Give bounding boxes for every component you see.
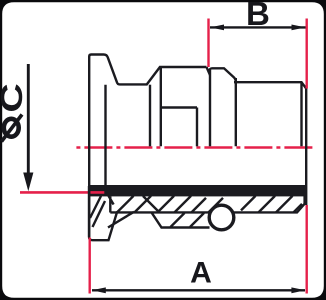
dim B right arrow [292,25,306,31]
flange lower block outline [89,186,117,240]
dim A right extension (red) [306,205,308,294]
label O of diameter symbol [4,119,19,137]
svg-text:B: B [246,0,270,32]
svg-text:C: C [0,83,29,112]
deep zone hatch [171,213,185,227]
tube end chamfer line [143,196,159,212]
step chamfer backslash [108,196,113,205]
bore shoulder horizontal [161,106,197,108]
flange right face vertical [104,85,106,196]
dim A left extension (red) [88,238,90,294]
groove right wall vertical [149,85,151,147]
collar right edge vertical [235,78,237,146]
dim B left arrow [210,25,224,31]
dim C down arrow [23,173,33,192]
hatch strip bottom edge with right end chamfer [110,186,304,212]
dim B right extension (red) [306,19,308,89]
flange block hatch [90,196,101,218]
dim A left arrow [92,287,106,293]
thread top edge and right end [234,82,306,205]
dim B left extension (red) [207,19,209,68]
centerline (red dash-dot) [75,146,316,148]
tube lower end slope and body lower wall line [152,212,210,227]
dim B line [210,26,306,28]
dim A line [92,289,305,291]
step edge right of block [109,196,111,212]
dim C line [27,64,30,174]
body left face vertical [160,67,162,146]
upper profile outline [89,55,206,238]
dim C red target line [20,191,105,194]
tube end cut diagonal [108,212,134,228]
dim A right arrow [291,287,305,293]
bore shoulder vertical [196,108,198,147]
collar notch and dome [207,67,236,82]
label slash of diameter symbol [2,115,23,142]
collar left edge vertical [209,70,211,146]
tube band solid fill [89,185,306,196]
hatch lines body wall [117,196,302,213]
o-ring circle [209,205,234,230]
thread chamfer inner vertical [300,82,302,146]
svg-text:A: A [190,256,212,289]
